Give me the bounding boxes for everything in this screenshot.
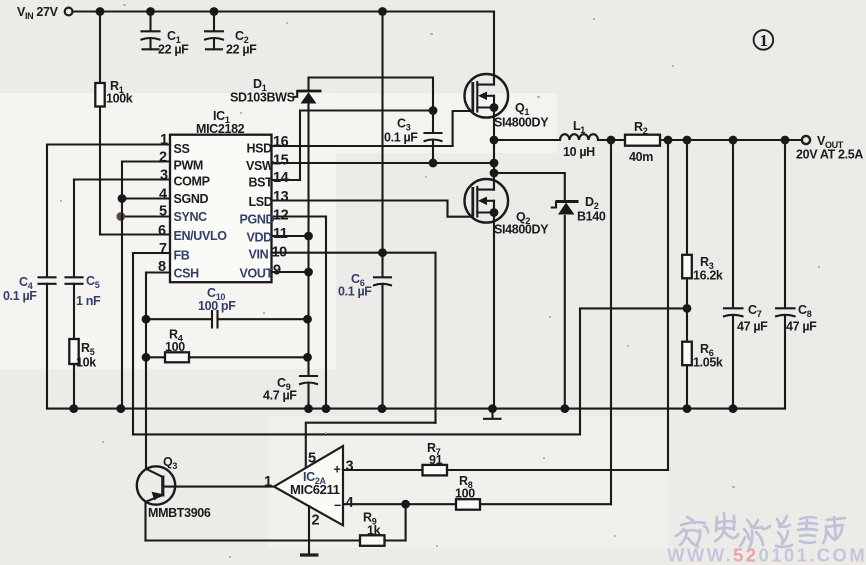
capacitor C8 47uF [776,140,817,409]
svg-text:20V AT 2.5A: 20V AT 2.5A [796,148,863,162]
wire divider to FB elbow [580,308,687,434]
wire R2 to VOUT terminal [660,139,802,141]
svg-text:16.2k: 16.2k [693,269,723,283]
pin 1 SS [47,132,189,156]
wire switch node to D2 [494,173,565,200]
resistor R6 1.05k [682,342,723,409]
svg-text:47 µF: 47 µF [737,320,768,334]
node inverting input junction [401,500,410,509]
svg-text:MIC6211: MIC6211 [290,482,340,497]
svg-text:−: − [334,499,341,513]
wire ground rail [47,408,785,410]
svg-text:10 µH: 10 µH [563,145,595,159]
svg-text:2: 2 [159,150,167,166]
resistor R8 100 [455,474,611,510]
svg-text:10: 10 [272,245,288,261]
pin 2 PWM [122,150,203,173]
node C8 top junction [781,136,790,145]
capacitor C3 0.1uF [384,111,442,168]
wire L1 to R2 [598,139,625,141]
pin 4 SGND [118,187,209,207]
svg-text:16: 16 [273,134,289,150]
wire D1 cathode to BST node [309,78,434,111]
wire CSH vertical to Q3 collector [145,273,147,470]
svg-text:9: 9 [273,263,281,279]
wire op-amp supply pin 5 line [306,423,436,468]
svg-text:SI4800DY: SI4800DY [494,223,549,237]
pin 16 HSD [247,134,453,156]
IC IC1 MIC2182 body [170,135,272,283]
pin 7 FB [133,241,190,263]
pin 14 BST [249,170,301,190]
svg-text:+: + [334,463,341,477]
svg-text:VDD: VDD [247,231,273,245]
resistor R9 1k [360,511,406,546]
svg-text:7: 7 [159,241,167,257]
wire switch node vertical [493,140,495,190]
node switch node junctions [490,136,499,145]
svg-text:5: 5 [159,204,167,220]
wire op-amp output to Q3 base [164,486,274,488]
node VOUT terminal [802,136,810,144]
svg-text:FB: FB [174,249,190,263]
svg-text:BST: BST [249,176,274,190]
svg-text:B140: B140 [577,210,606,224]
wire FB vertical [132,253,134,434]
ground symbol at Q2 source [484,409,501,419]
svg-text:WWW.520101.COM: WWW.520101.COM [667,545,866,565]
node BST/C3/D1 junction [429,106,438,115]
svg-text:EN/UVLO: EN/UVLO [174,229,228,243]
svg-text:3: 3 [346,459,354,475]
node R3 divider top junction [683,136,692,145]
wire R9 up to inverting input [405,504,407,540]
svg-text:0.1 µF: 0.1 µF [384,131,418,145]
wire PWM/SGND/SYNC vertical to ground rail [121,162,123,409]
figure number circled 1 [754,30,774,50]
capacitor C9 4.7uF [263,376,317,409]
op-amp IC2A MIC6211 [264,446,354,529]
svg-text:8: 8 [158,259,166,275]
wire pin 4 to R8 [343,503,456,505]
transistor Q2 SI4800DY [465,179,550,409]
svg-text:MMBT3906: MMBT3906 [148,506,211,520]
wire COMP to C5 [73,180,75,278]
wire SS to C4 [46,145,48,278]
pin 10 VIN [249,245,436,262]
node R2 left sense junction [607,136,616,145]
capacitor C6 0.1uF [338,272,391,409]
resistor R4 100 [142,328,312,363]
wire VIN pin line down to op-amp supply [434,253,436,423]
svg-text:0.1 µF: 0.1 µF [338,285,372,299]
wire Q3 emitter to R9 [146,539,361,541]
node C2 top junction [210,7,219,16]
svg-text:5: 5 [308,451,316,467]
wire LSD to Q2 gate [448,201,473,217]
pin 12 PGND [240,208,327,227]
svg-text:100: 100 [165,340,185,354]
capacitor C1 [142,12,190,57]
svg-text:22 µF: 22 µF [226,43,257,57]
resistor R7 91 [423,441,669,475]
svg-text:40m: 40m [629,150,653,164]
svg-text:15: 15 [273,153,289,169]
svg-text:1: 1 [160,132,168,148]
pin 9 VOUT [240,263,313,281]
svg-text:1: 1 [760,31,769,50]
svg-text:SGND: SGND [174,192,209,206]
svg-text:13: 13 [273,189,289,205]
svg-text:2: 2 [312,513,320,529]
transistor Q3 MMBT3906 [137,455,211,541]
svg-text:0.1 µF: 0.1 µF [3,289,37,303]
svg-text:4: 4 [346,495,354,511]
capacitor C10 100pF [142,286,312,328]
svg-text:22 µF: 22 µF [158,43,189,57]
svg-text:SS: SS [174,142,190,156]
wire BST elbow to C3 node [300,111,433,181]
svg-text:91: 91 [429,453,443,467]
node rail junctions [69,404,78,413]
svg-text:1 nF: 1 nF [76,294,101,308]
wire switch node to L1 [494,139,560,141]
pin 3 COMP [74,168,210,189]
svg-text:VOUT: VOUT [240,267,274,281]
wire FB feedback line [133,433,580,435]
wire op-amp pin 2 to ground [308,506,310,553]
svg-text:SYNC: SYNC [174,210,208,224]
wire PGND vertical to ground rail [325,217,327,409]
capacitor C2 [205,12,257,57]
diode D2 B140 [552,195,606,409]
svg-text:100 pF: 100 pF [198,299,236,313]
svg-text:3: 3 [160,168,168,184]
svg-text:100k: 100k [106,92,133,106]
wire R8 sense vertical [610,140,612,504]
resistor R2 40m [625,120,660,164]
svg-text:LSD: LSD [249,195,273,209]
svg-text:COMP: COMP [174,175,210,189]
svg-text:SD103BWS: SD103BWS [230,91,295,105]
svg-text:10k: 10k [76,356,96,370]
svg-text:1.05k: 1.05k [693,356,723,370]
node C7 top junction [729,136,738,145]
wire C6/VIN vertical from top rail [381,12,383,278]
svg-text:11: 11 [273,226,288,242]
inductor L1 10uH [560,119,598,159]
node VIN terminal [65,8,73,16]
resistor R5 10k [69,339,96,409]
svg-text:4: 4 [159,187,167,203]
svg-text:VIN 27V: VIN 27V [17,5,59,21]
svg-text:MIC2182: MIC2182 [196,122,245,136]
pin 5 SYNC [116,204,207,225]
svg-text:47 µF: 47 µF [786,320,817,334]
pin 15 VSW [246,153,494,174]
capacitor C4 0.1uF [3,275,56,409]
watermark chinese characters [676,513,845,548]
svg-text:PWM: PWM [174,159,204,173]
svg-text:14: 14 [273,170,289,186]
svg-text:PGND: PGND [240,213,275,227]
svg-text:SI4800DY: SI4800DY [494,116,549,130]
ground symbol op-amp [300,553,319,556]
pin 8 CSH [146,259,199,281]
node C1 top junction [146,7,155,16]
node R2 right sense junction [664,136,673,145]
svg-text:VIN: VIN [249,248,269,262]
capacitor C7 47uF [724,140,768,409]
node VIN vertical junction [378,7,387,16]
pin 11 VDD [247,226,313,245]
svg-text:4.7 µF: 4.7 µF [263,389,297,403]
svg-text:12: 12 [273,208,289,224]
pin 13 LSD [249,189,448,209]
resistor R3 16.2k [682,140,723,342]
capacitor C5 1nF [66,274,102,339]
svg-text:HSD: HSD [247,142,273,156]
wire pin 3 to R7 [343,469,423,471]
svg-text:6: 6 [158,223,166,239]
svg-text:CSH: CSH [174,267,200,281]
wire HSD to Q1 gate [453,111,473,146]
resistor R1 [95,12,133,235]
svg-text:100: 100 [455,487,475,501]
node R1 top junction [96,7,105,16]
pin 6 EN/UVLO [100,223,227,243]
svg-text:VSW: VSW [246,159,274,173]
transistor Q1 SI4800DY [465,12,550,141]
diode D1 SD103BWS [230,77,322,376]
svg-text:1k: 1k [367,524,381,538]
wire R7 sense vertical [667,140,669,470]
wire top rail [73,10,494,12]
